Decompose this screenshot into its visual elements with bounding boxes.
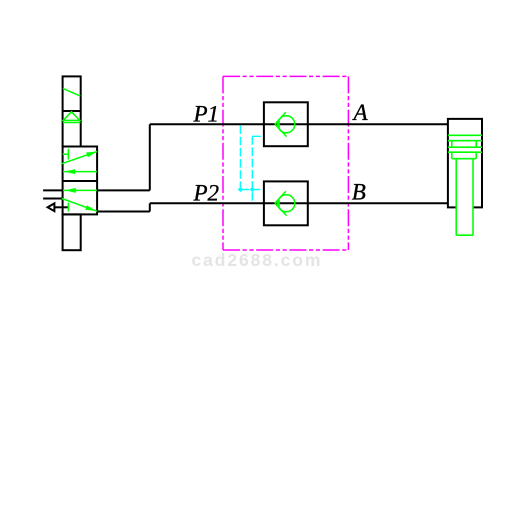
svg-text:cad2688.com: cad2688.com (192, 250, 323, 270)
svg-text:B: B (352, 180, 366, 205)
svg-text:A: A (352, 100, 369, 125)
svg-text:P1: P1 (193, 101, 220, 126)
svg-text:P2: P2 (193, 181, 220, 206)
